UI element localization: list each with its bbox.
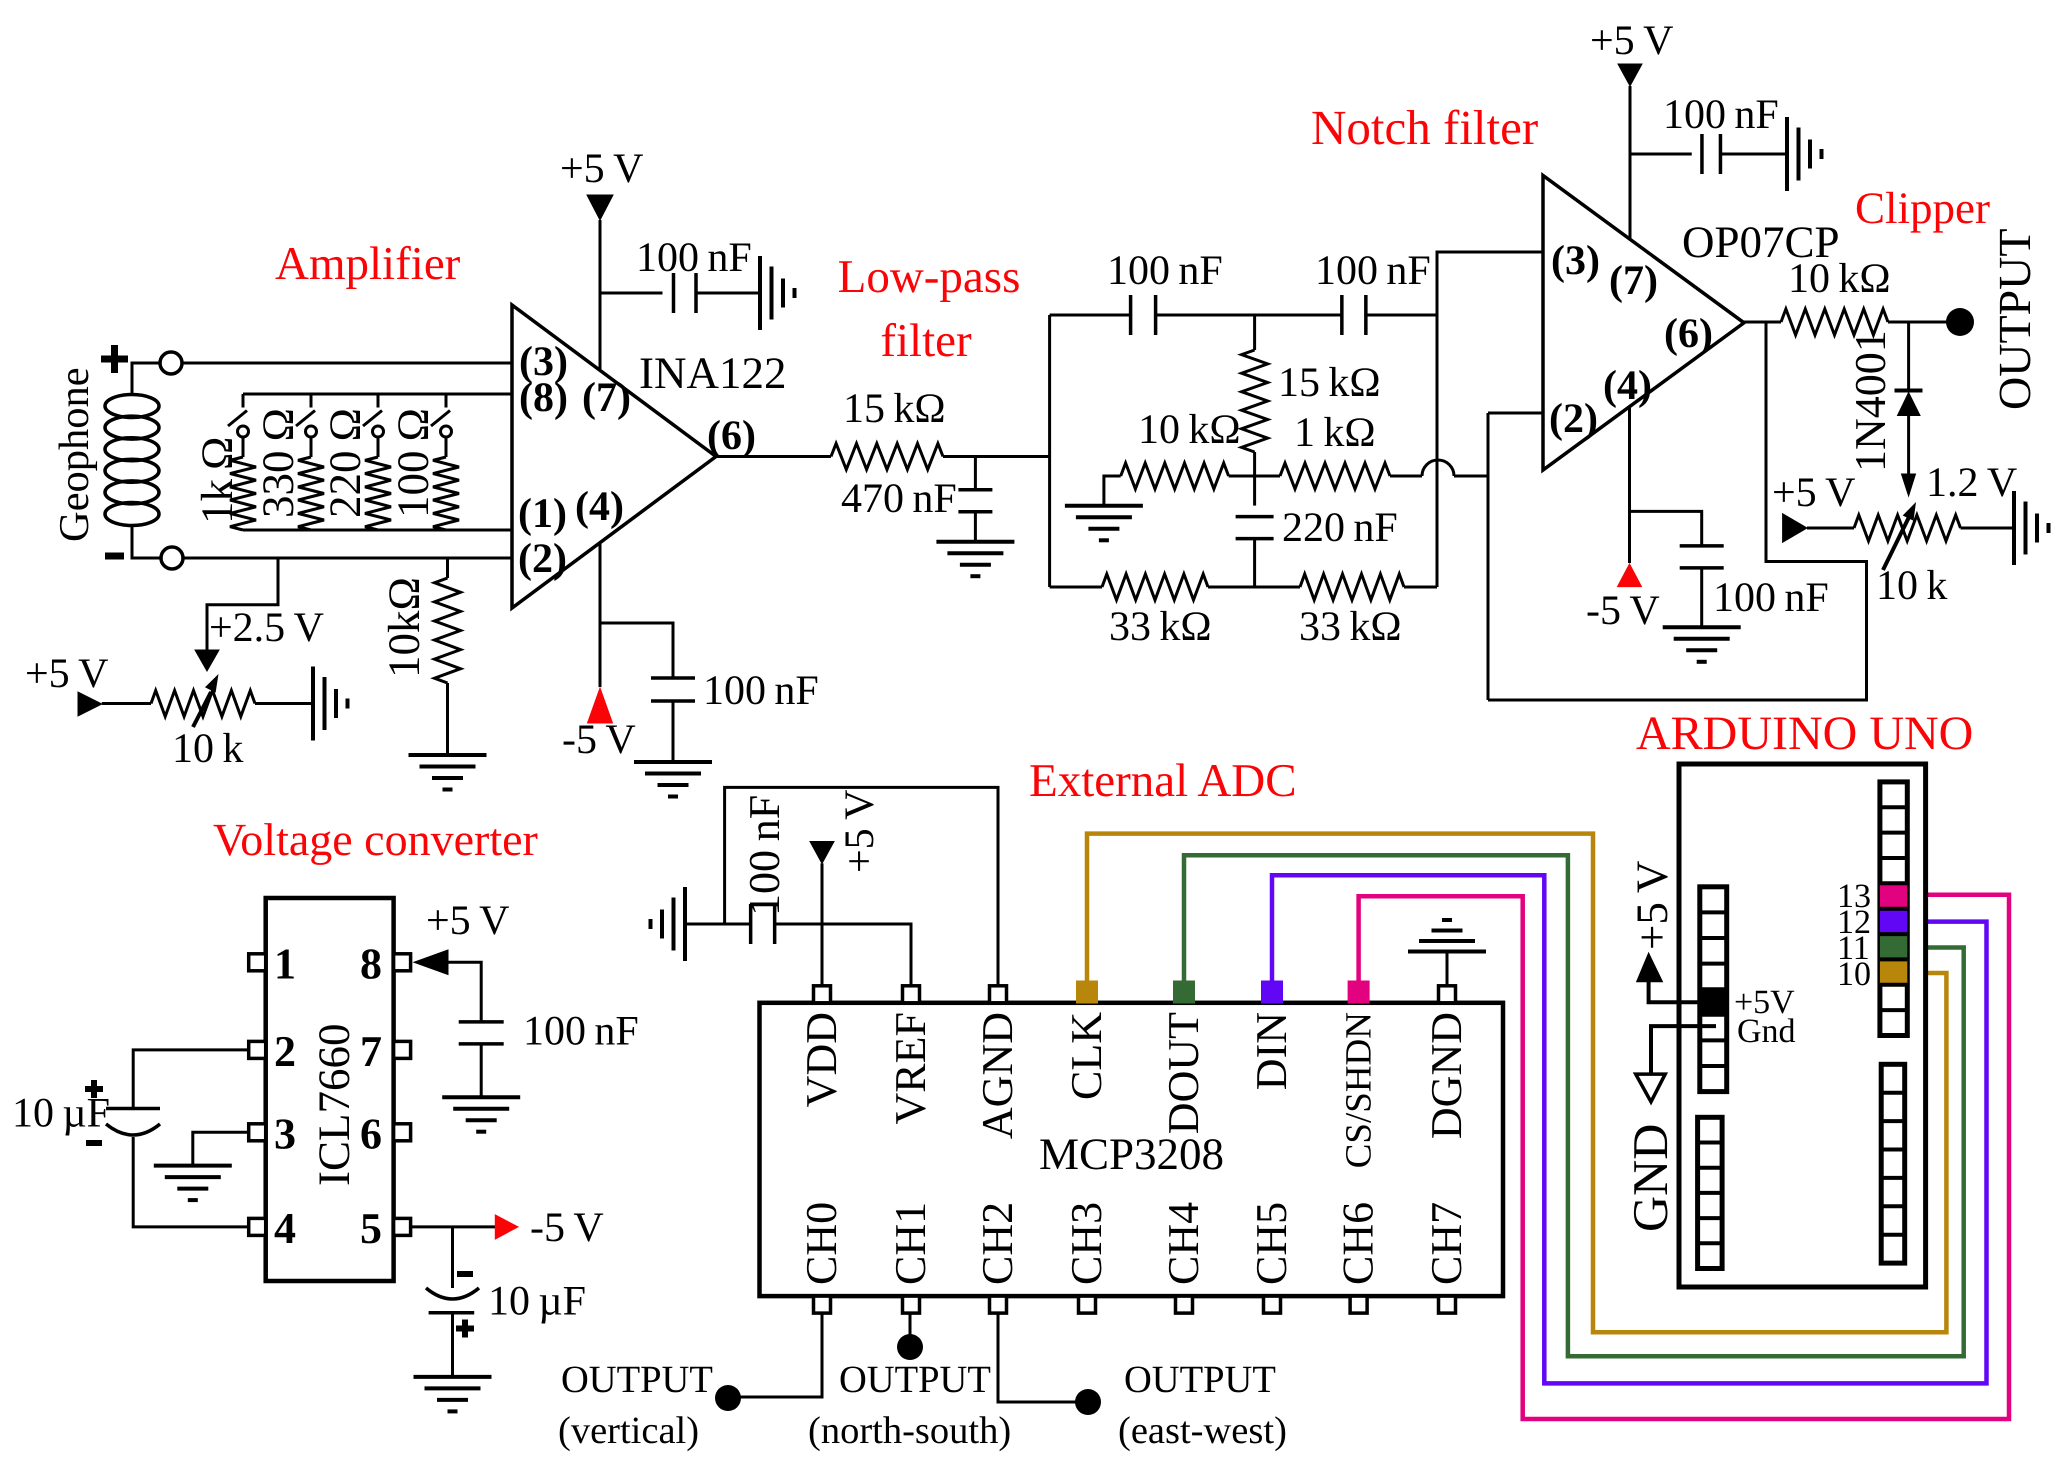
svg-text:33 kΩ: 33 kΩ	[1109, 604, 1212, 650]
svg-text:filter: filter	[880, 315, 972, 367]
ground (10uF out)	[414, 1375, 492, 1379]
wire AGND loop	[725, 787, 998, 985]
wire 10uF to pin4	[133, 1137, 249, 1227]
switch contact + resistor R gain 220ohm	[377, 394, 380, 408]
-5V arrow (red, up) op07	[1618, 564, 1642, 587]
svg-text:3: 3	[274, 1109, 296, 1158]
wire clipper pot to ground	[1961, 527, 2015, 530]
switch contact + resistor R gain 1kohm	[242, 394, 245, 408]
wire cap to ground (INA122 -5V)	[672, 701, 675, 762]
MCP3208 pin CLK	[1077, 981, 1098, 1003]
MCP3208 pin DOUT	[1174, 981, 1195, 1003]
minus sign (geophone -)	[105, 553, 124, 560]
svg-text:(1): (1)	[518, 491, 567, 537]
svg-text:(2): (2)	[518, 536, 567, 582]
svg-text:(vertical): (vertical)	[558, 1410, 699, 1452]
capacitor 220nF (notch)	[1236, 515, 1274, 519]
svg-text:5: 5	[360, 1204, 382, 1253]
svg-text:AGND: AGND	[973, 1012, 1022, 1139]
ICL7660 pin 8	[394, 954, 411, 971]
svg-text:Notch filter: Notch filter	[1311, 100, 1538, 155]
resistor 1kohm (notch middle)	[1280, 463, 1390, 489]
ground (INA122 -5V bypass)	[634, 760, 712, 764]
capacitor 10uF (pump, electrolytic)	[106, 1107, 160, 1111]
ICL7660 pin 4	[249, 1218, 266, 1235]
Arduino digital header (top)	[1880, 782, 1907, 1036]
plus sign (10uF out)	[456, 1320, 474, 1338]
bottom row wire right	[1404, 586, 1437, 589]
svg-text:10 µF: 10 µF	[488, 1279, 586, 1325]
svg-text:10 µF: 10 µF	[12, 1091, 110, 1137]
svg-text:220 Ω: 220 Ω	[320, 408, 370, 518]
svg-text:(4): (4)	[1603, 363, 1652, 409]
ICL7660 pin 1	[249, 954, 266, 971]
svg-text:CH3: CH3	[1062, 1202, 1111, 1285]
arrow down to wiper (clipper)	[1902, 474, 1916, 496]
svg-text:+5 V: +5 V	[560, 146, 643, 192]
wire -IN branch to +2.5V node	[207, 558, 278, 650]
svg-text:Clipper: Clipper	[1855, 183, 1990, 233]
capacitor 100nF (INA122 -5V bypass)	[651, 676, 695, 680]
svg-text:CLK: CLK	[1062, 1012, 1111, 1100]
wire CH1 to output dot	[909, 1313, 912, 1336]
resistor 33kohm (notch bottom right)	[1300, 574, 1404, 600]
top row wire right	[1366, 314, 1437, 317]
MCP3208 pin CH6	[1350, 1296, 1367, 1313]
wire - terminal to pin 2	[184, 557, 513, 560]
wire 470nF to ground	[974, 512, 977, 542]
MCP3208 pin DGND	[1439, 986, 1456, 1003]
svg-text:-5 V: -5 V	[1586, 588, 1660, 634]
svg-text:33 kΩ: 33 kΩ	[1299, 604, 1402, 650]
svg-text:10 k: 10 k	[172, 726, 243, 772]
svg-text:CH4: CH4	[1159, 1202, 1208, 1285]
svg-text:100 nF: 100 nF	[1107, 248, 1223, 294]
wire hop over right rail	[1422, 460, 1454, 476]
geophone - terminal circle	[161, 547, 183, 569]
svg-text:CH1: CH1	[886, 1202, 935, 1285]
resistor 15kohm vertical (notch)	[1242, 350, 1268, 452]
svg-text:(2): (2)	[1549, 396, 1598, 442]
wire cap to ground (VREF)	[685, 923, 751, 926]
ground (op07 -5V bypass)	[1663, 625, 1741, 629]
wire branch to -5V bypass cap	[600, 623, 673, 678]
svg-text:OUTPUT: OUTPUT	[561, 1359, 713, 1401]
feedback wire (output to pin2 loop)	[1488, 322, 1867, 700]
ground (under 10k bias resistor)	[409, 753, 487, 757]
wire CLK (dark yellow)	[1087, 834, 1946, 1333]
wire 1k to hop	[1390, 475, 1422, 478]
svg-text:10 kΩ: 10 kΩ	[1788, 256, 1891, 302]
ground (470nF)	[936, 540, 1014, 544]
capacitor 10uF (output, electrolytic)	[426, 1288, 479, 1299]
svg-text:7: 7	[360, 1027, 382, 1076]
wire +5V to op07 pin7	[1629, 86, 1632, 238]
ground (right-pointing, clipper pot)	[2012, 491, 2016, 565]
capacitor 100nF (op07 -5V bypass)	[1680, 544, 1724, 548]
wire cap to ground (op07 +5V)	[1720, 153, 1787, 156]
gain bus bottom (pin 1 wire)	[243, 529, 512, 532]
+5V arrow (down, MCP3208 VDD)	[810, 842, 834, 864]
wire hop to feedback rail	[1454, 475, 1488, 478]
svg-text:+5 V: +5 V	[426, 898, 509, 944]
svg-text:10 k: 10 k	[1876, 563, 1947, 609]
potentiometer 10k (clipper)	[1854, 515, 1961, 541]
MCP3208 pin CS/SHDN	[1348, 981, 1369, 1003]
OUTPUT terminal dot	[1946, 308, 1974, 336]
geophone coil	[105, 395, 159, 418]
MCP3208 pin CH3	[1079, 1296, 1096, 1313]
+5V arrow op07	[1618, 64, 1642, 86]
wire DIN (violet)	[1272, 875, 1987, 1383]
MCP3208 pin VREF	[903, 986, 920, 1003]
diode 1N4001	[1895, 389, 1923, 393]
bottom row wire left	[1050, 586, 1102, 589]
MCP3208 pin DIN	[1262, 981, 1283, 1003]
svg-text:(3): (3)	[1551, 238, 1600, 284]
svg-text:(4): (4)	[575, 484, 624, 530]
svg-text:100 nF: 100 nF	[703, 668, 819, 714]
svg-text:2: 2	[274, 1027, 296, 1076]
wire pin5 to -5V arrow	[411, 1225, 496, 1228]
wire CH0 to output dot	[740, 1313, 822, 1397]
wire 15k to middle node	[1253, 452, 1256, 506]
svg-text:470 nF: 470 nF	[841, 476, 957, 522]
svg-text:100 Ω: 100 Ω	[388, 408, 438, 518]
wire pin6 to 15k	[716, 455, 831, 458]
MCP3208 pin CH4	[1176, 1296, 1193, 1313]
resistor 10kohm (clipper series)	[1781, 309, 1888, 335]
capacitor 100nF (ICL7660)	[459, 1020, 504, 1024]
wire pin8 to cap	[448, 962, 481, 1022]
svg-text:100 nF: 100 nF	[523, 1009, 639, 1055]
svg-text:MCP3208: MCP3208	[1039, 1129, 1224, 1179]
GND arrow (open, down)	[1636, 1074, 1666, 1102]
svg-text:OUTPUT: OUTPUT	[1989, 229, 2040, 410]
svg-text:OUTPUT: OUTPUT	[839, 1359, 991, 1401]
ICL7660 pin 5	[394, 1218, 411, 1235]
wire cap to ground	[696, 292, 760, 295]
svg-text:-5 V: -5 V	[530, 1205, 604, 1251]
wire pin2 (notch)	[1488, 412, 1543, 415]
top row wire left	[1050, 314, 1131, 317]
svg-text:1N4001: 1N4001	[1846, 330, 1895, 472]
svg-text:Amplifier: Amplifier	[275, 238, 461, 290]
wire VREF to cap row	[775, 924, 911, 986]
svg-text:6: 6	[360, 1109, 382, 1158]
wire CH2 to output dot	[998, 1313, 1076, 1402]
svg-text:(6): (6)	[707, 413, 756, 459]
minus sign (10uF out)	[457, 1271, 473, 1277]
ICL7660 pin 6	[394, 1124, 411, 1141]
capacitor 100nF (VREF)	[749, 904, 753, 944]
wire op07 pin4 to -5V	[1628, 406, 1631, 563]
svg-text:+5 V: +5 V	[1590, 18, 1673, 64]
ground (upside down, DGND)	[1408, 950, 1486, 954]
svg-text:(north-south): (north-south)	[808, 1410, 1011, 1452]
wire DOUT (green)	[1184, 855, 1964, 1356]
svg-text:CH5: CH5	[1247, 1202, 1296, 1285]
wire output node to diode	[1907, 322, 1910, 392]
svg-text:(7): (7)	[582, 375, 631, 421]
OUTPUT dot (vertical)	[715, 1385, 741, 1411]
svg-text:100 nF: 100 nF	[740, 795, 789, 916]
svg-text:(6): (6)	[1664, 311, 1713, 357]
wire CS/SHDN (magenta)	[1359, 895, 2009, 1419]
svg-text:100 nF: 100 nF	[1315, 248, 1431, 294]
wire 10k to output node	[1888, 321, 1950, 324]
svg-text:CH7: CH7	[1422, 1202, 1471, 1285]
svg-text:+5 V: +5 V	[837, 790, 883, 873]
+5V arrow (up, Arduino)	[1637, 953, 1663, 982]
ground (ICL7660 100nF)	[442, 1095, 520, 1099]
svg-text:+2.5 V: +2.5 V	[209, 605, 324, 651]
-5V arrow (red, up)	[588, 688, 613, 723]
wire DGND to ground	[1446, 952, 1449, 986]
resistor 15kohm (low-pass)	[831, 444, 943, 470]
svg-text:DGND: DGND	[1422, 1012, 1471, 1139]
MCP3208 pin CH1	[903, 1296, 920, 1313]
wire + terminal to pin 3	[183, 362, 513, 365]
svg-text:Low-pass: Low-pass	[838, 251, 1021, 303]
svg-text:CH2: CH2	[973, 1202, 1022, 1285]
wire pot to ground	[255, 702, 313, 705]
svg-text:(east-west): (east-west)	[1118, 1410, 1287, 1452]
Arduino analog header	[1698, 1117, 1723, 1268]
IC U4 MCP3208 body	[760, 1003, 1504, 1296]
svg-text:ARDUINO UNO: ARDUINO UNO	[1636, 707, 1973, 760]
svg-text:Voltage converter: Voltage converter	[213, 814, 538, 865]
+5V arrow (clipper pot)	[1783, 514, 1807, 543]
svg-text:+5 V: +5 V	[1627, 861, 1677, 950]
ground (right-pointing, INA122 +5V bypass)	[758, 256, 762, 330]
MCP3208 pin CH7	[1439, 1296, 1456, 1313]
svg-text:GND: GND	[1622, 1124, 1678, 1232]
+5V arrow (right) for offset pot	[78, 692, 102, 716]
wire pin3 to ground	[193, 1132, 249, 1165]
wire ground to 10k (notch)	[1104, 476, 1121, 506]
wire coil bottom to - terminal	[132, 526, 161, 558]
MCP3208 pin CH0	[814, 1296, 831, 1313]
svg-text:15 kΩ: 15 kΩ	[1278, 360, 1381, 406]
ICL7660 pin 7	[394, 1041, 411, 1058]
geophone + terminal circle	[160, 352, 182, 374]
op-amp U1 INA122 triangle	[512, 305, 716, 608]
Arduino power header	[1700, 887, 1727, 1092]
OUTPUT dot (north-south)	[897, 1334, 923, 1360]
MCP3208 pin AGND	[990, 986, 1007, 1003]
wire cap to ground (ICL7660)	[480, 1044, 483, 1097]
+5V arrow (left-pointing into pin 8)	[414, 950, 448, 975]
wire 10uF out to ground	[451, 1313, 454, 1377]
plus sign (geophone +)	[101, 345, 128, 373]
bottom row middle wire	[1208, 586, 1300, 589]
switch contact + resistor R gain 330ohm	[310, 394, 313, 408]
wire op07 output	[1744, 321, 1781, 324]
svg-text:(8): (8)	[519, 375, 568, 421]
capacitor 100nF (notch top right)	[1340, 295, 1344, 335]
wire +5V arrow to pot	[102, 702, 151, 705]
wire junction to 470nF	[974, 457, 977, 490]
wire +5V power pin	[1649, 982, 1700, 1002]
ground (right-pointing, offset pot)	[311, 667, 315, 741]
capacitor 100nF (op07 +5V bypass)	[1700, 134, 1704, 174]
wire VDD to +5V	[821, 863, 824, 985]
-5V arrow (red, right)	[495, 1215, 518, 1239]
plus sign (10uF pump)	[85, 1080, 103, 1098]
wire coil top to + terminal	[132, 363, 160, 395]
svg-text:VDD: VDD	[797, 1012, 846, 1107]
IC U3 ICL7660 body	[266, 898, 394, 1281]
MCP3208 pin CH2	[990, 1296, 1007, 1313]
svg-text:1.2 V: 1.2 V	[1926, 460, 2017, 506]
wire INA122 pin4 to -5V	[599, 542, 602, 687]
svg-text:100 nF: 100 nF	[1663, 92, 1779, 138]
wire 15k to notch input rail	[943, 455, 1050, 458]
svg-text:330 Ω: 330 Ω	[253, 408, 303, 518]
ICL7660 pin 2	[249, 1041, 266, 1058]
svg-text:8: 8	[360, 939, 382, 988]
resistor 33kohm (notch bottom left)	[1102, 574, 1208, 600]
svg-text:1k Ω: 1k Ω	[192, 437, 242, 524]
gain bus top (pin 8 wire)	[243, 393, 512, 396]
resistor R bias 10kohm vertical	[446, 558, 449, 578]
svg-text:Geophone: Geophone	[51, 367, 98, 542]
resistor 10kohm (notch middle)	[1121, 463, 1229, 489]
ICL7660 pin 3	[249, 1124, 266, 1141]
svg-text:DIN: DIN	[1247, 1012, 1296, 1090]
wire pin2 to 10uF	[133, 1050, 249, 1109]
svg-text:1: 1	[274, 939, 296, 988]
svg-text:External ADC: External ADC	[1029, 755, 1297, 807]
MCP3208 pin VDD	[814, 986, 831, 1003]
ground (ICL7660 pin3)	[154, 1164, 232, 1168]
capacitor 100nF (INA122 +5V bypass)	[672, 273, 676, 313]
wire Gnd power pin	[1651, 1026, 1716, 1074]
svg-text:10kΩ: 10kΩ	[379, 577, 429, 678]
OUTPUT dot (east-west)	[1075, 1389, 1101, 1415]
svg-text:100 nF: 100 nF	[1713, 575, 1829, 621]
minus sign (10uF pump)	[86, 1140, 102, 1146]
wire branch to op07 -5V cap	[1630, 511, 1702, 546]
svg-text:4: 4	[274, 1204, 296, 1253]
svg-text:+5 V: +5 V	[1772, 470, 1855, 516]
svg-text:ICL7660: ICL7660	[309, 1024, 359, 1187]
svg-text:CH6: CH6	[1334, 1202, 1383, 1285]
svg-text:15 kΩ: 15 kΩ	[843, 386, 946, 432]
wire to op07 bypass cap	[1630, 153, 1692, 156]
ground (notch middle row)	[1065, 504, 1143, 508]
svg-text:10: 10	[1837, 956, 1871, 993]
wire middle node to 1k	[1229, 475, 1280, 478]
op-amp U2 OP07CP triangle	[1543, 176, 1744, 471]
Arduino digital header (bottom)	[1881, 1064, 1905, 1263]
svg-text:CH0: CH0	[797, 1202, 846, 1285]
Arduino board outline	[1679, 764, 1926, 1287]
svg-text:1 kΩ: 1 kΩ	[1294, 410, 1376, 456]
svg-text:-5 V: -5 V	[562, 717, 636, 763]
ground (left-pointing, VREF)	[683, 887, 687, 961]
wire 220nF to bottom row	[1253, 539, 1256, 587]
svg-text:100 nF: 100 nF	[636, 235, 752, 281]
feedback rail vertical	[1487, 413, 1490, 700]
ground (right-pointing, op07 +5V)	[1785, 117, 1789, 191]
svg-text:OUTPUT: OUTPUT	[1124, 1359, 1276, 1401]
wire top-center node to 15k	[1253, 315, 1256, 350]
notch input rail (left)	[1048, 315, 1051, 587]
potentiometer 10k (offset)	[151, 691, 255, 717]
svg-text:+5 V: +5 V	[25, 651, 108, 697]
capacitor 470nF	[958, 488, 992, 492]
svg-text:CS/SHDN: CS/SHDN	[1339, 1012, 1380, 1168]
svg-text:10 kΩ: 10 kΩ	[1138, 407, 1241, 453]
wire cap to ground (op07 -5V)	[1700, 568, 1703, 627]
svg-text:INA122: INA122	[639, 348, 786, 398]
+2.5V arrow (down)	[195, 650, 219, 671]
MCP3208 pin CH5	[1264, 1296, 1281, 1313]
wire +5V arrow to clipper pot	[1807, 527, 1854, 530]
notch right rail with pin3 jog	[1437, 252, 1543, 587]
svg-text:Gnd: Gnd	[1737, 1013, 1796, 1050]
svg-text:VREF: VREF	[886, 1012, 935, 1124]
svg-text:220 nF: 220 nF	[1282, 505, 1398, 551]
svg-text:(7): (7)	[1609, 258, 1658, 304]
capacitor 100nF (notch top left)	[1129, 295, 1133, 335]
svg-text:DOUT: DOUT	[1159, 1012, 1208, 1134]
wire junction to 10uF out	[451, 1227, 454, 1288]
top row wire middle	[1156, 314, 1342, 317]
wire +5V to bypass cap	[600, 292, 663, 295]
switch contact + resistor R gain 100ohm	[445, 394, 448, 408]
